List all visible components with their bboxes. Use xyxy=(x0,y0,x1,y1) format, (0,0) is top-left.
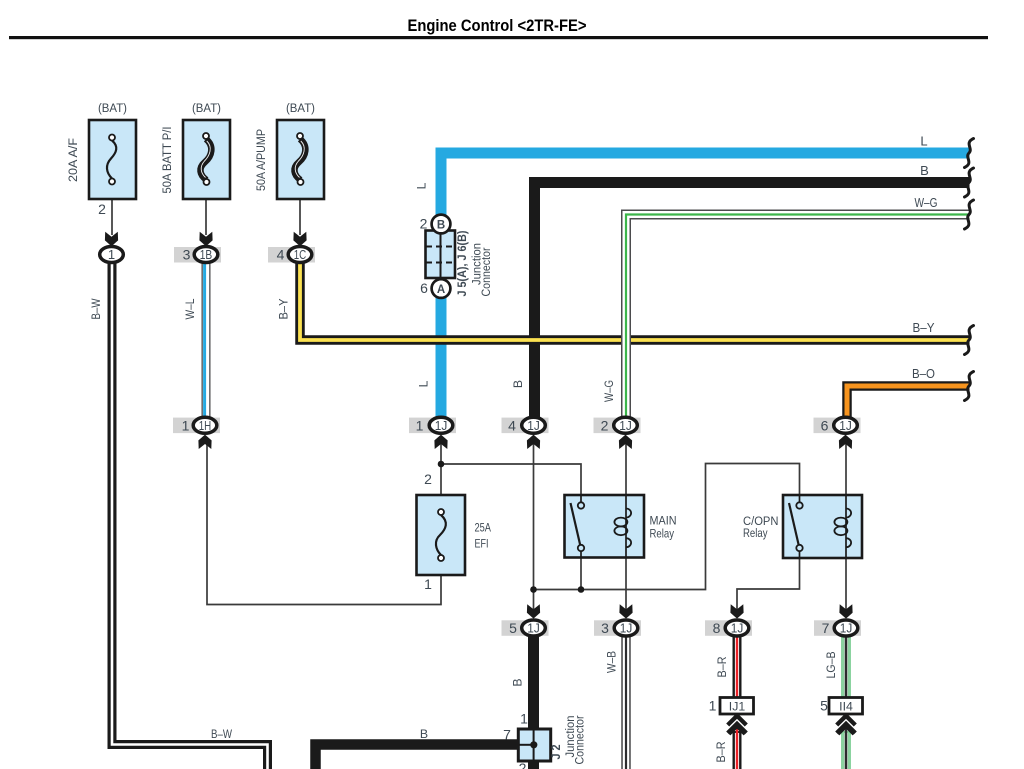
svg-text:8: 8 xyxy=(713,620,721,636)
svg-text:Relay: Relay xyxy=(743,526,768,540)
svg-text:J 5(A), J 6(B): J 5(A), J 6(B) xyxy=(455,231,469,297)
svg-text:(BAT): (BAT) xyxy=(192,101,221,115)
svg-text:B: B xyxy=(511,380,525,388)
svg-text:MAIN: MAIN xyxy=(650,514,677,528)
svg-text:6: 6 xyxy=(420,280,428,296)
svg-text:Relay: Relay xyxy=(650,527,675,541)
svg-text:EFI: EFI xyxy=(475,537,489,551)
svg-text:W–G: W–G xyxy=(602,380,616,402)
svg-text:1J: 1J xyxy=(620,621,633,636)
svg-text:L: L xyxy=(920,134,927,149)
svg-text:B–R: B–R xyxy=(714,741,728,762)
svg-text:A: A xyxy=(437,284,445,296)
svg-text:2: 2 xyxy=(601,417,609,433)
svg-text:Connector: Connector xyxy=(479,248,493,297)
svg-text:B–Y: B–Y xyxy=(277,299,291,320)
svg-text:B–O: B–O xyxy=(912,366,935,381)
svg-text:IJ1: IJ1 xyxy=(729,700,746,714)
svg-text:1: 1 xyxy=(424,576,432,592)
svg-text:6: 6 xyxy=(821,417,829,433)
svg-text:Connector: Connector xyxy=(573,716,587,765)
svg-text:1: 1 xyxy=(108,247,115,262)
svg-text:3: 3 xyxy=(183,247,191,263)
svg-text:J 2: J 2 xyxy=(549,744,563,759)
svg-text:1J: 1J xyxy=(435,418,448,433)
svg-text:B–W: B–W xyxy=(89,298,103,319)
svg-text:50A A/PUMP: 50A A/PUMP xyxy=(254,129,268,191)
svg-text:W–L: W–L xyxy=(183,298,197,319)
svg-text:1C: 1C xyxy=(294,247,307,262)
svg-text:1J: 1J xyxy=(619,418,632,433)
svg-text:1J: 1J xyxy=(731,621,744,636)
svg-text:20A A/F: 20A A/F xyxy=(66,138,80,182)
svg-text:B: B xyxy=(420,727,428,741)
svg-text:(BAT): (BAT) xyxy=(98,101,127,115)
svg-text:L: L xyxy=(415,182,429,189)
svg-text:Engine Control <2TR-FE>: Engine Control <2TR-FE> xyxy=(408,17,587,35)
svg-text:4: 4 xyxy=(277,247,285,263)
svg-text:B: B xyxy=(920,163,929,178)
svg-text:4: 4 xyxy=(508,417,516,433)
svg-text:L: L xyxy=(417,380,431,387)
svg-text:W–G: W–G xyxy=(915,195,938,210)
svg-text:1B: 1B xyxy=(200,247,213,262)
svg-text:B–Y: B–Y xyxy=(913,320,935,335)
svg-text:(BAT): (BAT) xyxy=(286,101,315,115)
svg-text:2: 2 xyxy=(519,760,527,769)
svg-text:25A: 25A xyxy=(475,521,492,535)
svg-text:LG–B: LG–B xyxy=(824,652,838,679)
svg-text:1: 1 xyxy=(520,711,528,727)
svg-text:7: 7 xyxy=(822,620,830,636)
svg-text:1J: 1J xyxy=(839,418,852,433)
svg-text:7: 7 xyxy=(503,727,511,743)
svg-text:B–W: B–W xyxy=(211,727,232,741)
svg-text:5: 5 xyxy=(820,698,828,714)
svg-text:B: B xyxy=(437,220,445,232)
svg-text:1H: 1H xyxy=(199,418,212,433)
svg-text:II4: II4 xyxy=(839,700,853,714)
svg-text:1: 1 xyxy=(182,417,190,433)
svg-text:3: 3 xyxy=(601,620,609,636)
svg-text:B: B xyxy=(511,678,525,686)
svg-text:1: 1 xyxy=(416,417,424,433)
svg-text:2: 2 xyxy=(424,471,432,487)
svg-text:B–R: B–R xyxy=(715,656,729,677)
svg-text:5: 5 xyxy=(509,620,517,636)
svg-text:W–B: W–B xyxy=(605,651,619,673)
svg-text:2: 2 xyxy=(420,216,428,232)
svg-text:50A BATT P/I: 50A BATT P/I xyxy=(160,127,174,194)
svg-text:1J: 1J xyxy=(527,621,540,636)
svg-text:1J: 1J xyxy=(527,418,540,433)
svg-text:1: 1 xyxy=(709,698,717,714)
svg-text:2: 2 xyxy=(98,201,106,217)
svg-text:1J: 1J xyxy=(840,621,853,636)
